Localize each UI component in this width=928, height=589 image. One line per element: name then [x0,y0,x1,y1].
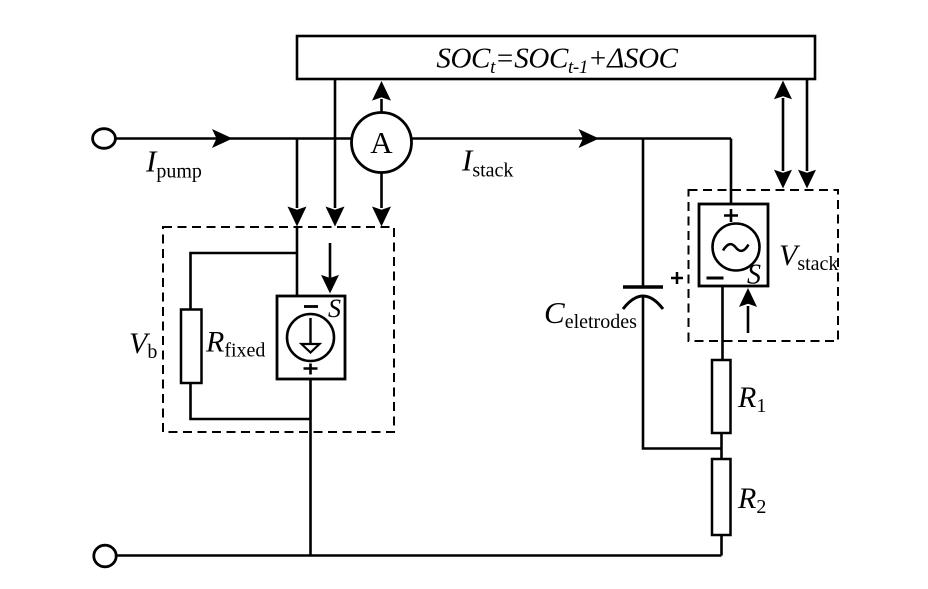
wire: main rail down to battery box at x=297 [296,139,299,209]
plus sign near capacitor [671,272,683,284]
wire: SOC box to battery box (crosses main rail) [334,79,337,208]
capacitor C_eletrodes bottom plate (curved) [623,296,663,309]
minus sign S1 [304,305,318,308]
svg-text:Celetrodes: Celetrodes [544,295,637,333]
arrow SOC-Vstack line 2 [806,79,809,171]
svg-text:R2: R2 [737,482,766,518]
sine source circle S2 [713,224,760,271]
svg-text:Rfixed: Rfixed [205,326,265,362]
control arrow into S1 [329,243,332,279]
svg-text:Vstack: Vstack [779,239,838,275]
svg-text:A: A [370,125,393,160]
arrow on I_stack wire [579,129,600,148]
dashed V_stack box [689,190,839,341]
wire: main rail down to V_stack source [730,139,733,205]
arrow on I_pump wire [212,129,233,148]
wire: main top rail [116,137,732,140]
resistor R1 [712,360,731,433]
double arrow SOC-Vstack line 1 [782,98,785,171]
svg-text:S: S [747,260,761,291]
wire: R2 to bottom rail [720,535,723,556]
sine symbol [723,244,749,251]
ammeter A [352,113,412,173]
minus sign S2 [707,277,724,280]
current source arrow S1 (open head) [309,318,311,344]
SOC block box [297,36,815,79]
svg-text:Istack: Istack [461,143,513,182]
svg-text:Vb: Vb [129,327,157,363]
svg-text:Ipump: Ipump [145,144,202,183]
svg-text:SOCt=SOCt-1+ΔSOC: SOCt=SOCt-1+ΔSOC [436,43,678,79]
wire: into box at x=297 down to source S1 [296,227,299,296]
arrowhead down at x=335 [326,207,345,227]
terminal top-left [93,129,116,149]
resistor R_fixed [181,310,202,384]
dashed battery box [163,227,394,432]
arrowhead down at x=381.5 [372,207,391,227]
resistor R2 [712,459,731,535]
plus sign S2 [724,209,738,222]
wire: S1 bottom down to bottom rail [309,379,312,556]
arrowhead down at x=297 [288,207,307,227]
wire: S2 bottom to R1 [721,286,724,360]
wire: capacitor bottom to R1/R2 node [643,295,722,449]
plus sign S1 [304,364,318,375]
svg-text:R1: R1 [737,381,766,417]
controlled current source S1 box [277,296,345,379]
bottom rail wire [117,554,722,557]
up arrow inside V_stack box [747,306,750,333]
wire: R_fixed bottom to source bottom node [191,383,311,419]
wire: branch down to capacitor [642,139,645,288]
voltage source S2 box [699,204,768,286]
current source circle S1 [287,314,334,361]
terminal bottom-left [94,545,116,567]
wire: ammeter to SOC box with up arrow [380,99,383,112]
wire: ammeter down to battery box [380,173,383,209]
capacitor C_eletrodes top plate [623,285,663,289]
wire: R1 to R2 [720,433,723,459]
svg-text:S: S [328,294,341,323]
wire: branch to R_fixed [191,253,298,310]
